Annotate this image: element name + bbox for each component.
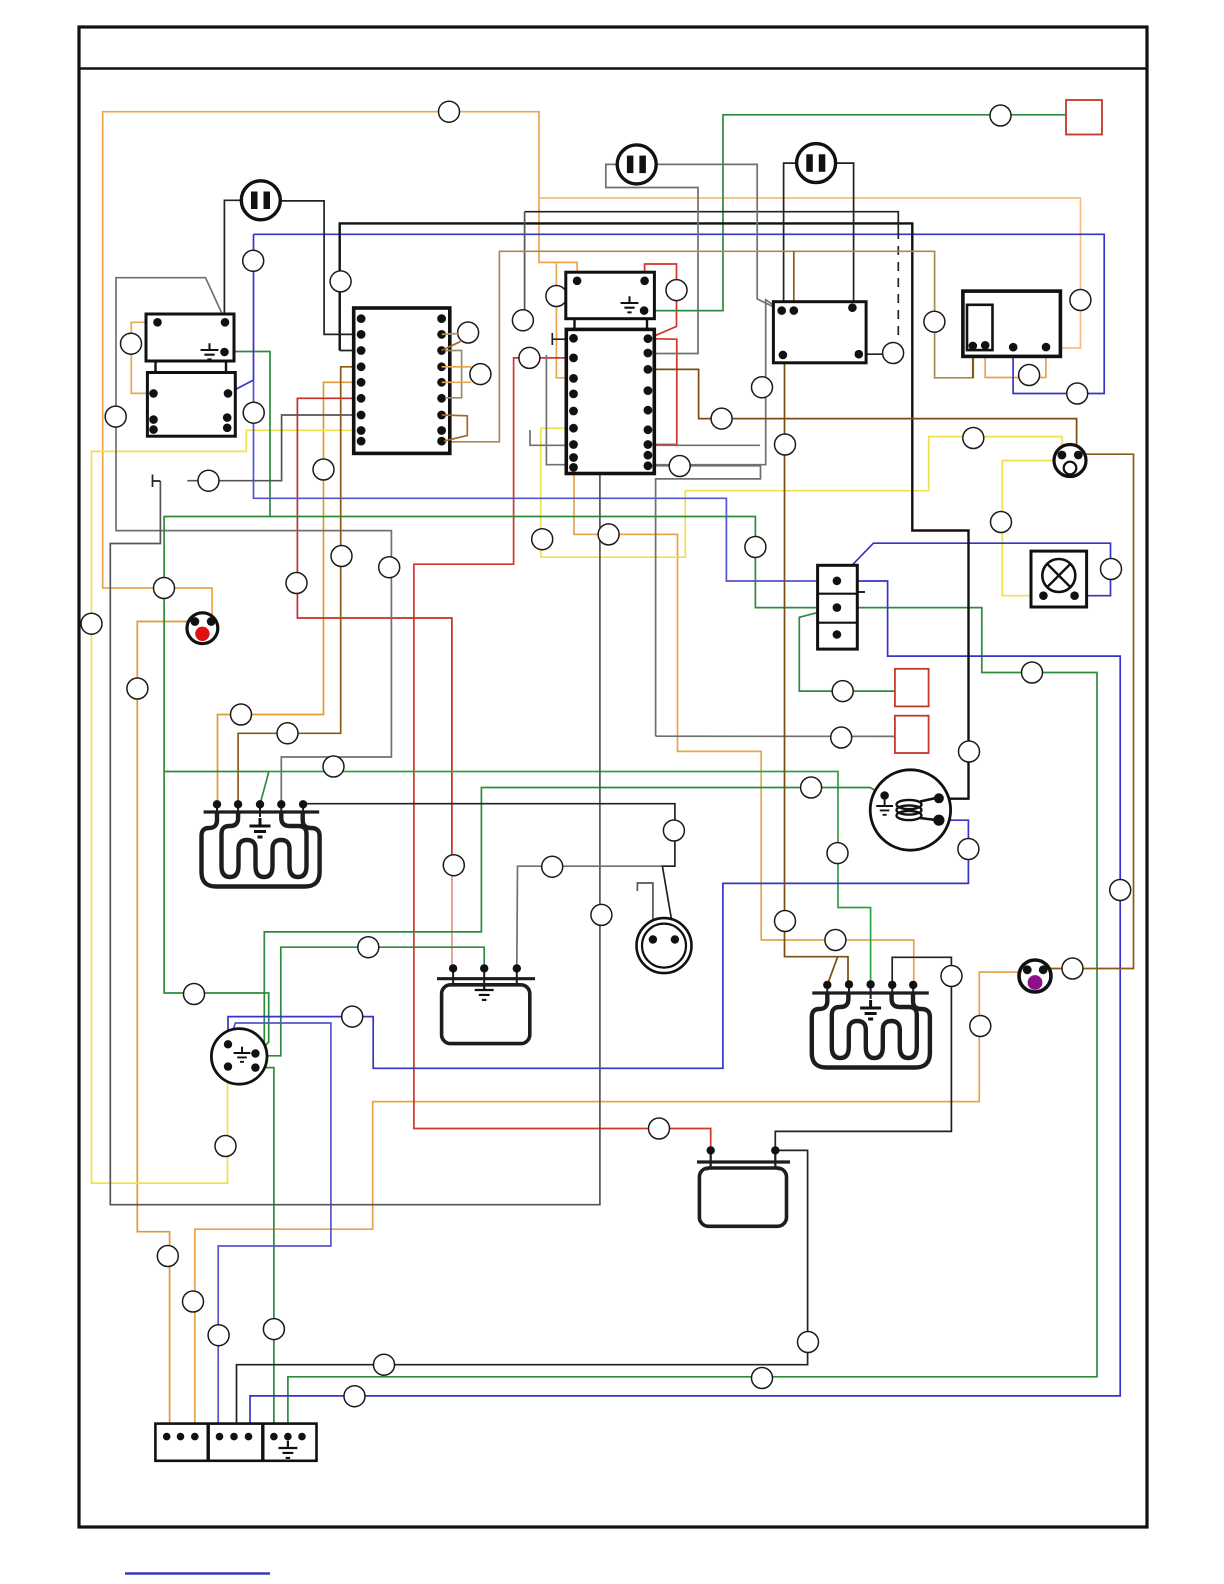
- wire green relay1 pin to bus tee: [227, 352, 270, 517]
- wire black relay4 pin to circle: [861, 353, 882, 355]
- relay K1-K2 links: [154, 361, 156, 373]
- wire brown IC1 pin4L to bake element pin2: [238, 367, 361, 805]
- wire red IC1 pin6L to R14 pin1: [297, 398, 452, 865]
- wire orange IC2 pin9L to broil element pin5: [574, 470, 914, 985]
- wire green circleB pin4 to terminal block s3: [255, 1068, 274, 1437]
- wire gray stub tick to circleD pin1: [637, 883, 653, 940]
- oven lamp L1: [1031, 551, 1087, 607]
- wire brown relay4 pin down to broil element: [783, 355, 848, 985]
- relay K2: [147, 373, 235, 437]
- wire blue riser to relay2 pin: [228, 234, 254, 393]
- wire red IC2 pin1R to pin7R bracket: [648, 339, 677, 445]
- wire black IC2 pin1L stub: [552, 333, 573, 345]
- motor M1: [870, 770, 950, 850]
- wire tan relay4 pin2 riser: [793, 251, 795, 310]
- wire black stub tick: [153, 475, 161, 488]
- wire black socket1 left to relay1 pin: [224, 200, 243, 322]
- wire brown box5 pin1 drop: [972, 346, 974, 378]
- wire yellow top connector to oven lamp: [1002, 461, 1054, 596]
- wire black socket1 right to IC1 pin2L: [280, 201, 361, 335]
- wire gray y445 loop: [530, 430, 760, 445]
- wire green bake bus to broil element pin3: [269, 772, 871, 985]
- wire black stub x524: [524, 212, 526, 321]
- wire green bus right to stack pin2: [270, 517, 837, 608]
- wire orange IC1 pin5L to bake element pin1: [218, 382, 362, 804]
- IC U1 right side links: [442, 334, 471, 442]
- connector P2 top-right: [1054, 445, 1086, 477]
- bake element E1: [202, 800, 320, 886]
- wire blue motor pin2 to circleB pin1: [228, 820, 968, 1068]
- socket J1: [241, 181, 280, 220]
- wire gray long bottom loop: [110, 473, 600, 1205]
- wire orange box5 pin2 loop: [985, 345, 1046, 377]
- switch stack S1: [818, 565, 865, 649]
- wire black bottom box pin2 up-right from broil: [775, 957, 951, 1150]
- relay K4: [773, 302, 866, 363]
- wire green long left vertical to circleB pin2: [164, 772, 269, 1056]
- socket J3: [797, 144, 836, 183]
- wire black bottom box pin2 right drop to terminal block: [237, 1150, 808, 1436]
- wire blue stack pin1 to lamp: [837, 543, 1111, 596]
- wire black socket3 right to relay4 top pin: [836, 163, 854, 308]
- wire brown IC2 pin3R to top connector: [648, 369, 1077, 455]
- wire red box3 to IC2 pin1R: [645, 264, 677, 339]
- wire black bake pin5 to junction and circleD pin2: [303, 804, 675, 940]
- wire gray relay2 pin loop: [187, 415, 361, 481]
- box B5: [963, 291, 1061, 356]
- wire green motor feed: [255, 788, 884, 1056]
- wire gray IC2 pin9R to relay4 gray drop: [652, 466, 761, 736]
- bottom box B6: [697, 1146, 790, 1226]
- box B3: [566, 272, 655, 319]
- wire brown diagonal to broil pin1: [827, 957, 837, 985]
- wire yellow IC2 pin6L to top connector: [541, 428, 1062, 557]
- wire yellow IC1 pin8L long left run to circleB pin3: [92, 430, 362, 1183]
- wire brown top connector to purple connector via border: [1043, 454, 1134, 968]
- connector P1 red-dot: [187, 613, 218, 644]
- socket J2: [617, 145, 656, 184]
- connector P5 circleD double ring: [637, 918, 692, 973]
- red terminal square TR: [1066, 100, 1102, 135]
- wire black thick bus y223: [340, 223, 969, 798]
- connector P4 circleB: [211, 1029, 267, 1085]
- caption underline: [125, 1572, 270, 1574]
- IC U1: [354, 308, 450, 453]
- wire blue circleB pin1 to terminal block s2: [218, 1023, 331, 1437]
- wire orange red-dot connector left pin down to terminal block: [137, 622, 195, 1437]
- wire orange main right run to box5: [539, 198, 1081, 348]
- wire blue bus from relay2 riser: [254, 234, 1105, 393]
- wire orange relay1 pin to relay2 pin: [131, 322, 157, 393]
- wire red IC2 pin2L long left-down run: [414, 358, 711, 1151]
- component R14 rounded box: [437, 964, 535, 1043]
- wire gray socket2 right to relay4 pin1: [656, 164, 782, 310]
- wire green red square to box3 ground pin: [644, 115, 1068, 311]
- wire black bus from socket1 area: [340, 350, 361, 352]
- wire gray to red square2: [656, 735, 895, 737]
- wire gray socket2 left to IC2 pin2R: [606, 164, 698, 353]
- wire orange stub box3 pin1: [556, 262, 577, 280]
- wire green stack pin2 to right side down: [288, 608, 1097, 1437]
- wire red light lower part to R14 pin1: [452, 865, 453, 968]
- relay K1: [146, 314, 234, 361]
- wire black socket3 left to relay4 pin1: [782, 163, 797, 311]
- connector P3 purple-dot: [1019, 960, 1051, 992]
- wire gray relay1 pin to bake element pin4: [116, 278, 391, 805]
- wire gray R14 pin3 to junction: [517, 866, 675, 968]
- wire blue light mid bus: [254, 380, 837, 581]
- wire green bus left to bake element pin3 and long left vertical: [164, 517, 270, 805]
- wire green stack pin2 to red square1: [799, 608, 895, 692]
- node callout circles: [439, 101, 460, 122]
- wire black bus y212 from gray tee to relay4 circle: [525, 212, 899, 230]
- terminal block TB: [155, 1424, 316, 1461]
- IC U2: [566, 329, 654, 473]
- red square RS1: [895, 669, 929, 707]
- wire tan IC1 pin9R to box5 pin1: [442, 251, 974, 441]
- broil element E2: [812, 980, 930, 1067]
- B3-U2 links: [573, 319, 575, 330]
- wire orange main left loop to red-dot connector: [103, 112, 539, 622]
- wire orange branch to box3 and IC2 pin3L: [539, 198, 574, 378]
- wire gray loop y465 to relay4 pin1: [546, 300, 781, 465]
- red square RS2: [895, 716, 929, 753]
- wire blue stack line to far right drop: [250, 581, 1120, 1437]
- wire orange bottom bus to terminal block s1: [195, 972, 1026, 1437]
- wire green to R14 pin2: [255, 947, 484, 1056]
